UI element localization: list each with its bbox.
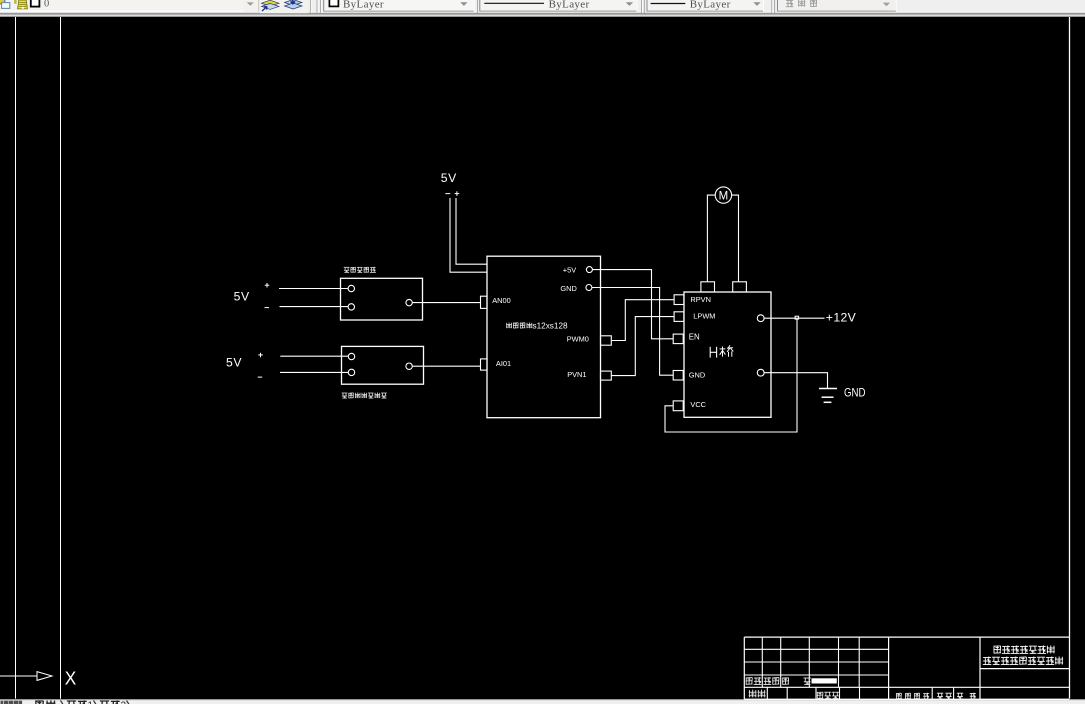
wire tie-rod sensor output to AI01 — [412, 365, 480, 367]
MCU pin PWM0 stub — [601, 336, 612, 345]
sheet frame inner left border — [60, 17, 62, 699]
wire MCU GND to H-bridge GND — [592, 288, 673, 376]
H-bridge pin LPWM stub — [674, 312, 684, 322]
svg-text:ByLayer: ByLayer — [343, 0, 384, 10]
H-bridge output GND terminal circle — [757, 369, 764, 376]
MCU pin GND label — [560, 284, 576, 293]
layer color swatch — [31, 0, 40, 7]
MCU pin GND circle — [586, 285, 592, 291]
svg-text:s12xs128: s12xs128 — [533, 322, 568, 331]
node +12V junction square — [795, 316, 799, 319]
svg-text:GND: GND — [560, 284, 576, 293]
5V source label for steering sensor — [234, 290, 250, 304]
MCU U1 Freescale S12XS128 box — [487, 256, 601, 418]
MCU pin AN00 label — [492, 296, 511, 305]
toolbar separator grips — [311, 0, 322, 13]
wire 5V plus to MCU — [456, 198, 487, 264]
tie-rod sensor terminal - circle — [348, 369, 354, 375]
title block highlighted cell (white fill) — [812, 678, 837, 683]
svg-text:EN: EN — [689, 332, 700, 341]
svg-text:+5V: +5V — [563, 266, 576, 275]
steering sensor terminal + circle — [348, 285, 354, 291]
layer lock icon — [18, 0, 28, 9]
wire steering sensor - input — [280, 306, 349, 308]
svg-text:5V: 5V — [441, 171, 457, 185]
H-bridge motor terminal stub left — [701, 282, 715, 292]
wire tie-rod sensor + input — [280, 355, 348, 357]
lineweight control combobox ByLayer — [642, 0, 764, 13]
wire motor left lead — [707, 195, 715, 282]
tie-rod displacement sensor module box — [342, 346, 424, 384]
wire MCU PVN1 to H-bridge LPWM — [611, 317, 674, 376]
title block label 比例 — [957, 693, 976, 699]
wire motor right lead — [732, 195, 739, 282]
H-bridge +12V terminal circle — [757, 315, 764, 322]
svg-text:GND: GND — [689, 371, 705, 380]
title block label 设计 — [749, 690, 766, 698]
H-bridge pin GND stub — [673, 371, 683, 381]
UCS icon X axis — [0, 672, 52, 681]
steering sensor terminal - circle — [348, 304, 354, 310]
title block label 标准化 — [817, 692, 839, 698]
MCU pin PWM0 label — [567, 335, 589, 344]
model tab 模型 (partial) — [35, 700, 64, 704]
MCU label 飞思卡尔s12xs128 — [506, 322, 568, 331]
polarity + for tie-rod sensor — [258, 353, 263, 358]
svg-text:AI01: AI01 — [496, 359, 511, 368]
H-bridge pin LPWM label — [693, 311, 715, 320]
svg-text:ByLayer: ByLayer — [690, 0, 731, 10]
steering wheel sensor module box — [341, 278, 423, 320]
linetype control combobox ByLayer — [478, 0, 637, 13]
title block label 阶段标记 — [896, 693, 930, 699]
sheet frame outer left border — [15, 17, 17, 699]
polarity - for tie-rod sensor — [258, 376, 263, 378]
layer name 0 — [44, 0, 49, 9]
school name 黑龙江工程学院 — [994, 645, 1055, 653]
svg-text:VCC: VCC — [690, 400, 706, 409]
wire MCU +5V to H-bridge EN — [592, 270, 673, 339]
label 横拉杆位移测量 — [342, 393, 387, 399]
svg-text:0: 0 — [44, 0, 49, 9]
tab navigation buttons (partial) — [1, 701, 23, 704]
H-bridge pin EN stub — [673, 334, 683, 344]
UCS icon X label — [65, 669, 77, 689]
wire H-bridge to +12V — [764, 317, 824, 319]
H-bridge label H桥 — [710, 345, 733, 357]
title block grid lines — [744, 637, 1069, 699]
MCU pin +5V circle — [586, 267, 592, 273]
svg-text:GND: GND — [844, 386, 866, 400]
steering sensor output circle — [406, 299, 412, 305]
wire steering sensor output to AN00 — [412, 302, 480, 304]
MCU pin AI01 label — [496, 359, 511, 368]
H-bridge pin RPVN label — [690, 295, 711, 304]
5V supply polarity marks - + — [445, 191, 459, 196]
svg-text:RPVN: RPVN — [690, 295, 711, 304]
layer properties toolbar button icons — [260, 0, 309, 13]
svg-text:+12V: +12V — [826, 311, 857, 325]
tie-rod sensor output circle — [406, 363, 412, 369]
H-bridge pin VCC stub — [673, 401, 683, 411]
svg-text:PVN1: PVN1 — [567, 370, 586, 379]
status bar top edge — [0, 699, 1085, 704]
+12V label — [826, 311, 857, 325]
svg-text:X: X — [65, 669, 77, 689]
5V source label for tie-rod sensor — [226, 356, 242, 370]
wire H-bridge to ground — [764, 373, 827, 388]
sheet frame right border — [1069, 17, 1071, 699]
H-bridge U2 box — [684, 292, 771, 417]
MCU pin AN00 stub — [481, 296, 488, 308]
MCU pin AI01 stub — [481, 359, 488, 370]
wire MCU PWM0 to H-bridge RPVN — [611, 300, 674, 341]
svg-text:ByLayer: ByLayer — [549, 0, 590, 10]
layer control combobox — [0, 0, 259, 12]
wire tie-rod sensor - input — [280, 371, 348, 373]
svg-text:2: 2 — [121, 701, 127, 704]
svg-text:1: 1 — [88, 701, 94, 704]
MCU pin +5V label — [563, 266, 576, 275]
wire 5V minus to MCU — [450, 198, 487, 272]
MCU pin PVN1 label — [567, 370, 586, 379]
toolbar background — [0, 0, 1085, 17]
color control combobox ByLayer — [324, 0, 474, 12]
H-bridge motor terminal stub right — [733, 282, 747, 292]
svg-text:M: M — [719, 191, 729, 203]
5V supply label (top) — [441, 171, 457, 185]
title block revision row labels 标记 处数 分 区 — [746, 677, 811, 685]
H-bridge pin VCC label — [690, 400, 706, 409]
plot style text 随颜色 — [786, 0, 890, 7]
polarity - for steering sensor — [265, 307, 270, 309]
H-bridge pin EN label — [689, 332, 700, 341]
wire +12V to VCC loop — [665, 319, 797, 432]
layer combo dropdown arrow — [244, 0, 259, 12]
H-bridge pin GND label — [689, 371, 705, 380]
ground symbol — [819, 389, 837, 403]
layer visibility icon (sun/sheet) — [0, 0, 10, 8]
svg-text:LPWM: LPWM — [693, 311, 715, 320]
tie-rod sensor terminal + circle — [348, 353, 354, 359]
GND label — [844, 386, 866, 400]
layer lightbulb tip icon — [14, 0, 16, 4]
layout tabs 布局1 布局2 (partial) — [67, 700, 130, 704]
title block label 重量 — [937, 693, 952, 699]
svg-text:5V: 5V — [226, 356, 242, 370]
H-bridge pin RPVN stub — [674, 295, 684, 305]
school name 汽车与交通工程学院 — [983, 657, 1063, 665]
wire steering sensor + input — [279, 288, 348, 290]
polarity + for steering sensor — [265, 283, 270, 288]
svg-text:AN00: AN00 — [492, 296, 511, 305]
svg-text:PWM0: PWM0 — [567, 335, 589, 344]
plot style combobox (disabled) — [772, 0, 897, 13]
motor M1 circle — [715, 187, 731, 203]
MCU pin PVN1 stub — [601, 371, 612, 380]
svg-text:5V: 5V — [234, 290, 250, 304]
label 方向盘模拟 — [344, 267, 376, 273]
